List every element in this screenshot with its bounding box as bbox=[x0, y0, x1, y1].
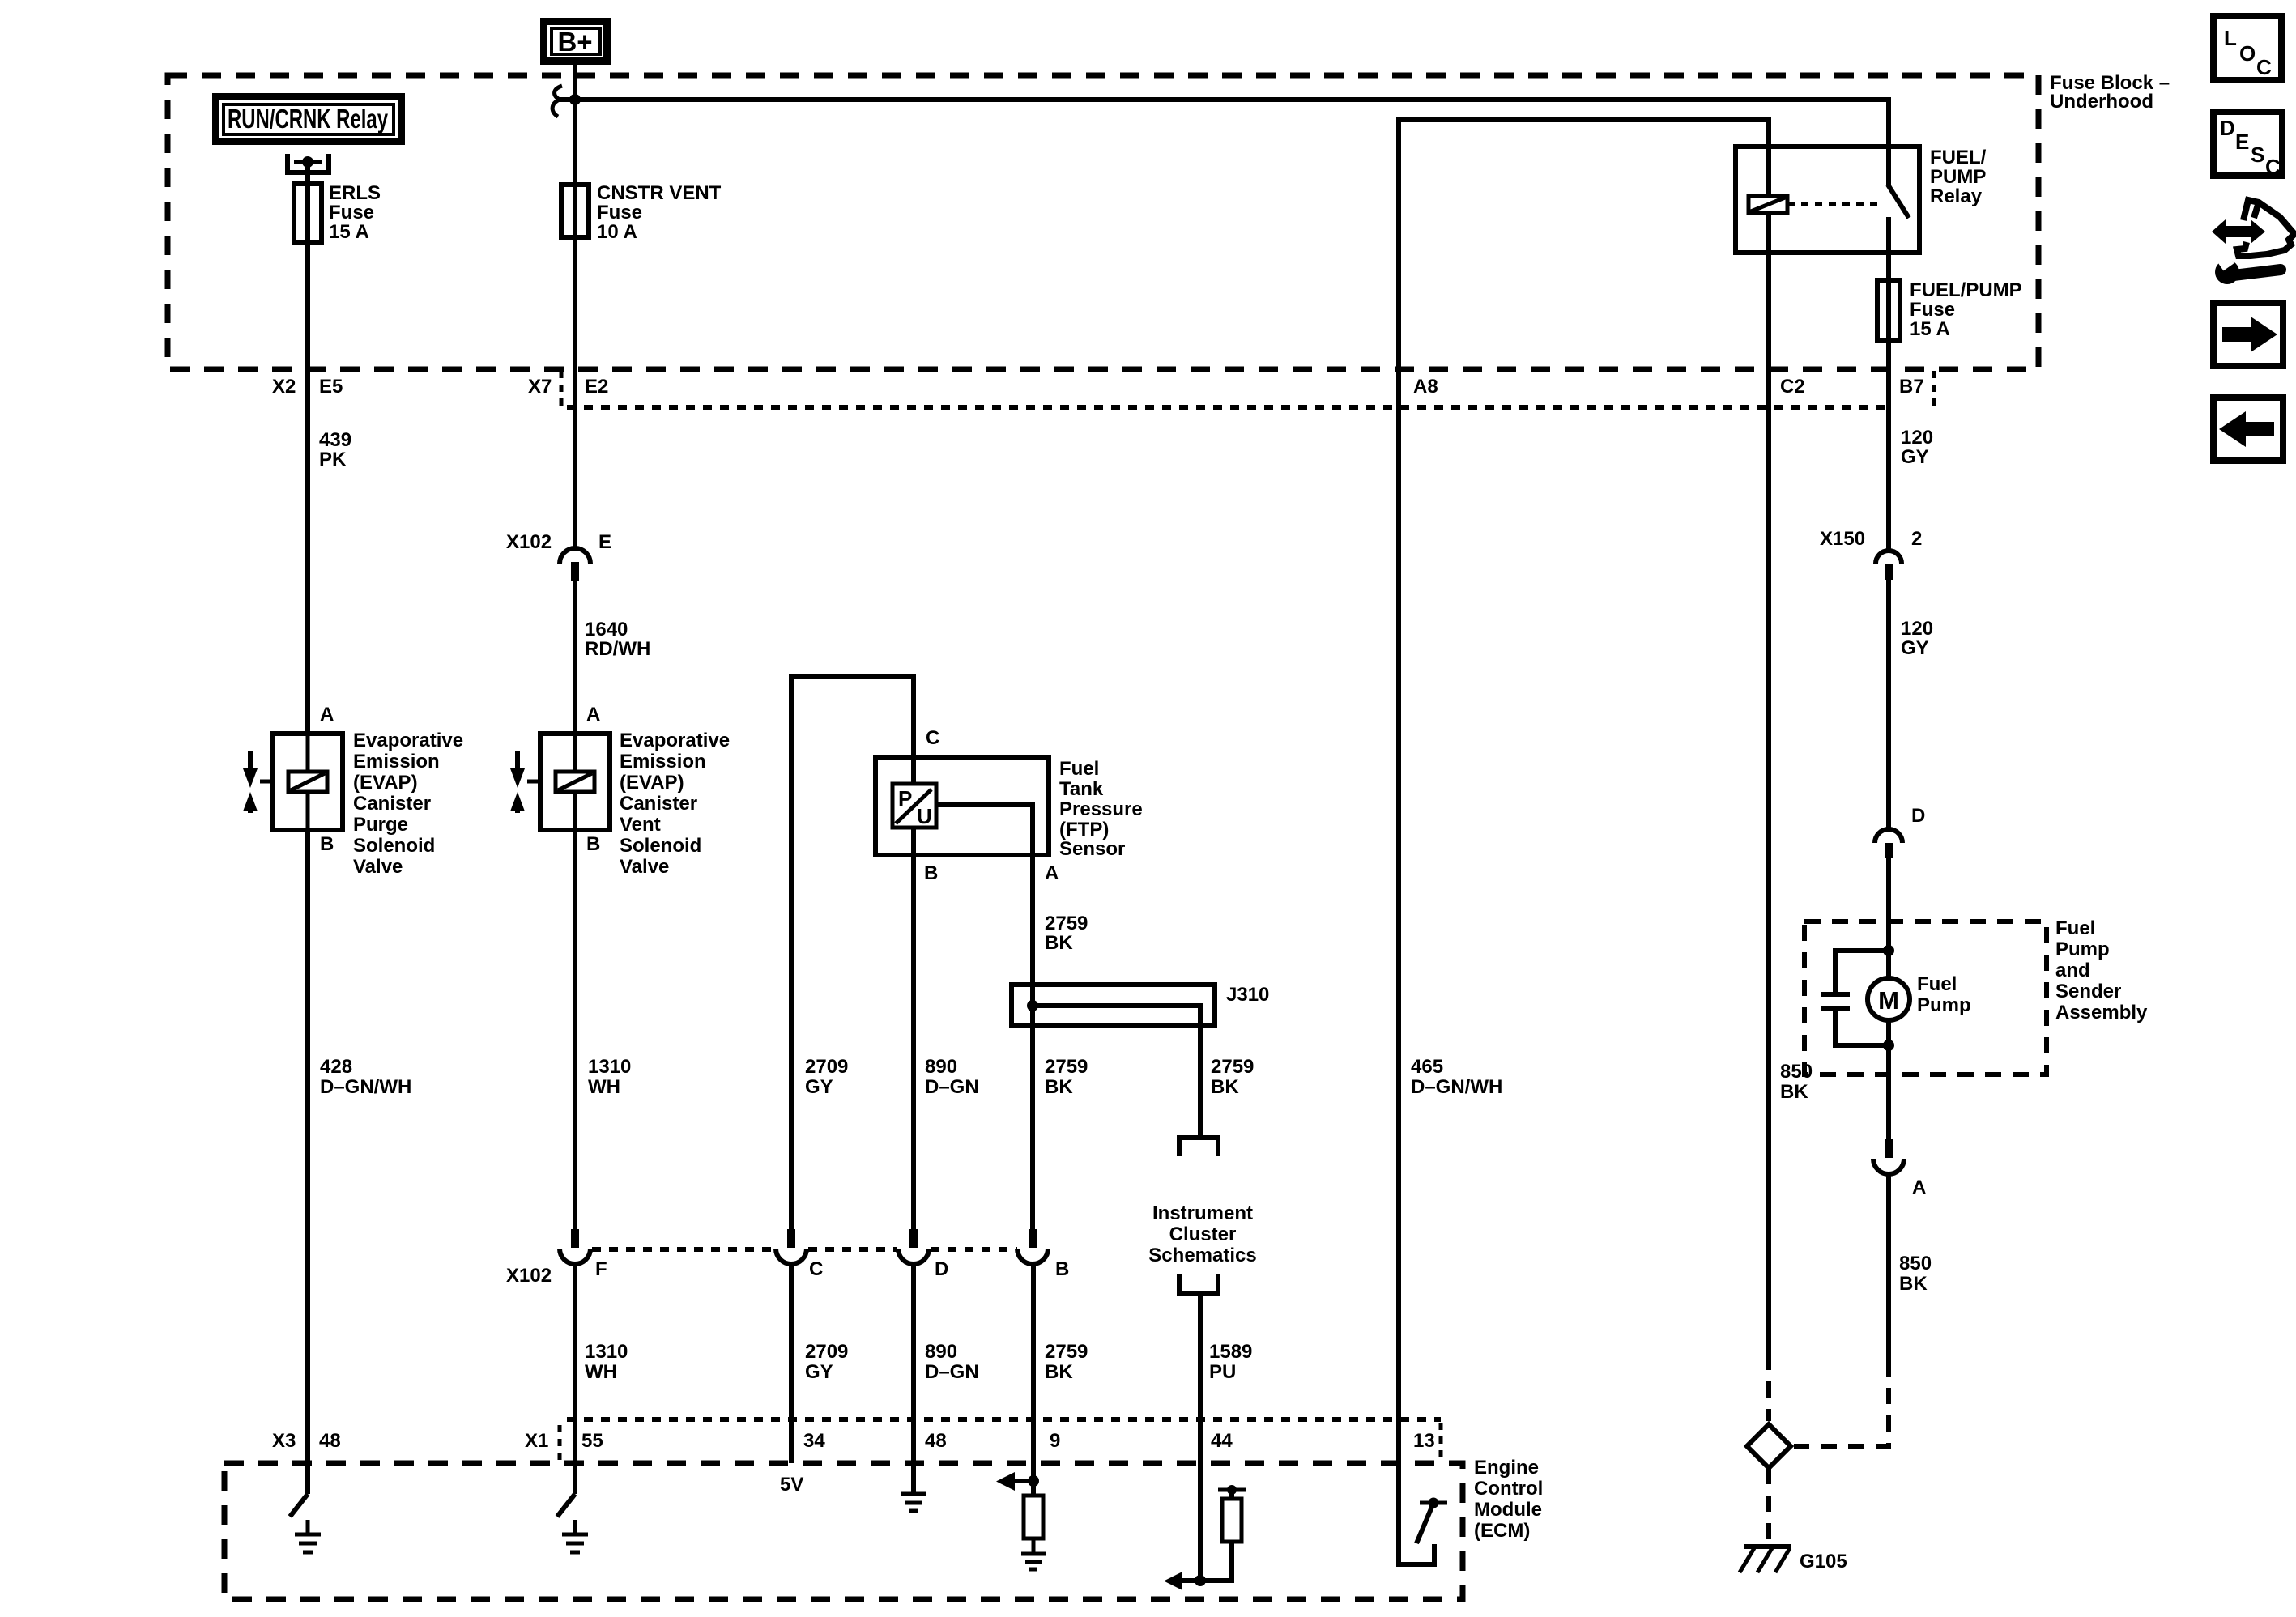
svg-text:Fuse: Fuse bbox=[329, 202, 374, 223]
wire vent solenoid B to X102 F bbox=[573, 830, 577, 1229]
svg-text:D–GN/WH: D–GN/WH bbox=[320, 1076, 411, 1098]
svg-text:Emission: Emission bbox=[620, 751, 706, 772]
fuse ERLS 15 A bbox=[294, 182, 381, 243]
off-page bracket to instrument cluster (top) bbox=[1179, 1138, 1218, 1156]
svg-text:Schematics: Schematics bbox=[1148, 1245, 1256, 1266]
svg-text:Evaporative: Evaporative bbox=[353, 730, 463, 751]
wire A8 feed bus to relay coil bbox=[1399, 120, 1769, 1463]
svg-text:D–GN: D–GN bbox=[925, 1076, 979, 1098]
svg-text:D: D bbox=[1911, 805, 1925, 827]
wire ERLS fuse to X2-E5 bbox=[305, 242, 310, 734]
svg-text:5V: 5V bbox=[780, 1474, 803, 1496]
svg-text:A8: A8 bbox=[1413, 376, 1438, 398]
svg-text:C: C bbox=[2265, 155, 2281, 179]
wire ERLS feed bbox=[305, 163, 310, 184]
ECM internal driver switch at pin 13 bbox=[1399, 1463, 1447, 1564]
svg-text:A: A bbox=[320, 704, 334, 726]
svg-text:Fuel: Fuel bbox=[1059, 758, 1099, 780]
node B+ bus junction bbox=[569, 94, 581, 105]
wire 2759 BK label (FTP A) bbox=[1045, 913, 1088, 954]
svg-text:Emission: Emission bbox=[353, 751, 440, 772]
motor M fuel pump bbox=[1868, 973, 1971, 1020]
connector row fuse block: X2 E5 X7 E2 A8 C2 B7 bbox=[272, 371, 1934, 407]
svg-text:Relay: Relay bbox=[1930, 185, 1983, 207]
wire 2759 BK from FTP A bbox=[936, 805, 1033, 1229]
ECM internal switch to ground at pin 48 X3 bbox=[290, 1494, 321, 1552]
svg-text:Pump: Pump bbox=[1917, 994, 1971, 1016]
svg-text:BK: BK bbox=[1899, 1273, 1928, 1295]
svg-text:465: 465 bbox=[1411, 1056, 1443, 1078]
ECM internal signal arrow and resistor at pin 9 bbox=[996, 1472, 1046, 1569]
svg-text:X3: X3 bbox=[272, 1430, 296, 1452]
icon DESC button bbox=[2213, 112, 2282, 179]
wire 1310 WH lower bbox=[575, 1264, 628, 1494]
svg-text:Fuel: Fuel bbox=[2055, 917, 2095, 939]
ECM internal switch to ground at pin 55 bbox=[557, 1494, 588, 1552]
svg-text:U: U bbox=[917, 804, 932, 828]
svg-text:Pressure: Pressure bbox=[1059, 798, 1143, 820]
ECM internal pull-up resistor and arrow at pin 44 bbox=[1164, 1485, 1246, 1590]
svg-text:2709: 2709 bbox=[805, 1341, 848, 1363]
svg-text:E: E bbox=[598, 531, 611, 553]
svg-text:FUEL/PUMP: FUEL/PUMP bbox=[1910, 279, 2022, 301]
wire B+ bus to fuel pump relay switch bbox=[575, 100, 1889, 147]
svg-text:2: 2 bbox=[1911, 528, 1922, 550]
svg-text:G105: G105 bbox=[1800, 1551, 1847, 1572]
svg-text:M: M bbox=[1878, 986, 1899, 1015]
wire 2709 GY lower bbox=[791, 1264, 848, 1463]
svg-text:1589: 1589 bbox=[1209, 1341, 1252, 1363]
svg-text:Valve: Valve bbox=[620, 856, 669, 878]
svg-text:B: B bbox=[924, 862, 938, 884]
wire dashed C2 to splice bbox=[1766, 1354, 1771, 1421]
svg-text:Instrument: Instrument bbox=[1152, 1202, 1253, 1224]
splice diamond bbox=[1747, 1424, 1791, 1468]
svg-text:Tank: Tank bbox=[1059, 778, 1104, 800]
fuel pump and sender assembly dashed box bbox=[1804, 917, 2148, 1074]
icon LOC button bbox=[2213, 16, 2281, 80]
svg-text:PUMP: PUMP bbox=[1930, 166, 1986, 188]
svg-text:Fuse: Fuse bbox=[1910, 299, 1955, 321]
wire CNSTR VENT fuse to X102 E bbox=[573, 237, 577, 549]
wire 890 D-GN lower bbox=[914, 1264, 979, 1492]
svg-text:44: 44 bbox=[1211, 1430, 1233, 1452]
ECM internal ground at pin 48 bbox=[901, 1494, 926, 1511]
svg-text:D: D bbox=[2220, 116, 2235, 140]
svg-text:1310: 1310 bbox=[588, 1056, 631, 1078]
svg-text:(EVAP): (EVAP) bbox=[353, 772, 418, 794]
svg-text:PK: PK bbox=[319, 449, 347, 470]
svg-text:Canister: Canister bbox=[620, 793, 697, 815]
ground G105 chassis bbox=[1740, 1547, 1847, 1572]
B+ power node bbox=[544, 22, 607, 62]
svg-text:Underhood: Underhood bbox=[2050, 91, 2153, 113]
svg-text:Valve: Valve bbox=[353, 856, 403, 878]
wire 2759 BK label left bbox=[1045, 1056, 1088, 1098]
wire 850 BK label in pump box bbox=[1780, 1061, 1813, 1103]
wire dashed 850 BK to splice bbox=[1794, 1360, 1889, 1446]
connector X102 B bbox=[1017, 1229, 1048, 1264]
icon diagnostic vehicle with wrench bbox=[2212, 200, 2294, 284]
RUN/CRNK relay contact socket bbox=[288, 154, 329, 172]
svg-text:GY: GY bbox=[1901, 637, 1929, 659]
fuse block underhood dashed box bbox=[168, 72, 2170, 369]
relay coil-switch dashed link bbox=[1787, 202, 1879, 206]
svg-text:Sensor: Sensor bbox=[1059, 838, 1125, 860]
wire 120 GY lower label bbox=[1889, 580, 1933, 829]
svg-text:B: B bbox=[586, 833, 600, 855]
svg-text:(EVAP): (EVAP) bbox=[620, 772, 684, 794]
svg-text:9: 9 bbox=[1050, 1430, 1060, 1452]
svg-text:D–GN: D–GN bbox=[925, 1361, 979, 1383]
connector X102 C bbox=[776, 1229, 807, 1264]
svg-text:1640: 1640 bbox=[585, 619, 628, 640]
svg-text:13: 13 bbox=[1413, 1430, 1435, 1452]
connector X150 pin 2 bbox=[1820, 528, 1922, 580]
wire relay coil to C2 bbox=[1766, 213, 1771, 1354]
wire break squiggle at B+ bus left end bbox=[552, 86, 575, 117]
ECM connector row X3 bbox=[272, 1430, 341, 1452]
svg-text:WH: WH bbox=[585, 1361, 617, 1383]
svg-text:2759: 2759 bbox=[1045, 1056, 1088, 1078]
wire 465 D-GN/WH bbox=[1411, 1056, 1502, 1098]
wire 1589 PU bbox=[1200, 1295, 1252, 1581]
svg-text:(FTP): (FTP) bbox=[1059, 819, 1109, 840]
svg-text:Pump: Pump bbox=[2055, 938, 2110, 960]
svg-text:Sender: Sender bbox=[2055, 981, 2121, 1002]
svg-text:C: C bbox=[2256, 55, 2272, 79]
svg-text:10 A: 10 A bbox=[597, 221, 637, 243]
svg-text:15 A: 15 A bbox=[1910, 318, 1950, 340]
svg-text:WH: WH bbox=[588, 1076, 620, 1098]
fuse CNSTR VENT 10 A bbox=[561, 182, 722, 243]
svg-text:FUEL/: FUEL/ bbox=[1930, 147, 1987, 168]
svg-text:850: 850 bbox=[1780, 1061, 1813, 1083]
svg-text:X150: X150 bbox=[1820, 528, 1865, 550]
relay coil FUEL/PUMP bbox=[1749, 196, 1787, 213]
svg-text:X102: X102 bbox=[506, 1265, 552, 1287]
svg-text:850: 850 bbox=[1899, 1253, 1932, 1274]
svg-text:BK: BK bbox=[1780, 1081, 1808, 1103]
svg-text:2759: 2759 bbox=[1045, 1341, 1088, 1363]
svg-text:GY: GY bbox=[1901, 446, 1929, 468]
svg-text:Control: Control bbox=[1474, 1478, 1543, 1500]
svg-text:GY: GY bbox=[805, 1361, 833, 1383]
wire 2759 BK label right of J310 bbox=[1211, 1056, 1254, 1098]
wire 428 D-GN/WH bbox=[308, 830, 411, 1494]
splice J310 bbox=[1012, 984, 1269, 1138]
wire B+ drop to CNSTR VENT fuse bbox=[573, 100, 577, 185]
ECM connector row X1 bbox=[525, 1419, 1441, 1460]
svg-text:E2: E2 bbox=[585, 376, 608, 398]
svg-text:C2: C2 bbox=[1780, 376, 1805, 398]
sensor FTP P/U element bbox=[892, 784, 936, 828]
svg-text:J310: J310 bbox=[1226, 984, 1269, 1006]
wire into pump assembly bbox=[1886, 858, 1891, 978]
svg-text:X2: X2 bbox=[272, 376, 296, 398]
fuse FUEL/PUMP 15 A bbox=[1877, 279, 2022, 340]
svg-text:E: E bbox=[2235, 130, 2249, 154]
svg-text:CNSTR VENT: CNSTR VENT bbox=[597, 182, 722, 204]
svg-text:Cluster: Cluster bbox=[1169, 1223, 1237, 1245]
svg-text:120: 120 bbox=[1901, 618, 1933, 640]
off-page bracket from instrument cluster (bottom) bbox=[1179, 1274, 1218, 1293]
svg-text:D–GN/WH: D–GN/WH bbox=[1411, 1076, 1502, 1098]
svg-text:and: and bbox=[2055, 960, 2090, 981]
svg-text:Vent: Vent bbox=[620, 814, 661, 836]
icon back arrow button bbox=[2213, 398, 2283, 461]
connector X102 D bbox=[898, 1229, 929, 1264]
svg-text:34: 34 bbox=[803, 1430, 825, 1452]
svg-text:2759: 2759 bbox=[1211, 1056, 1254, 1078]
svg-text:ERLS: ERLS bbox=[329, 182, 381, 204]
wire 2709 GY hook from FTP C bbox=[791, 677, 914, 1229]
wire 890 D-GN label bbox=[925, 1056, 979, 1098]
svg-text:C: C bbox=[809, 1258, 823, 1280]
svg-text:890: 890 bbox=[925, 1056, 957, 1078]
wire 850 BK lower label bbox=[1889, 1176, 1932, 1360]
svg-text:B+: B+ bbox=[557, 27, 592, 57]
svg-text:2759: 2759 bbox=[1045, 913, 1088, 934]
svg-text:S: S bbox=[2251, 143, 2264, 167]
svg-text:439: 439 bbox=[319, 429, 351, 451]
svg-text:15 A: 15 A bbox=[329, 221, 369, 243]
svg-text:F: F bbox=[595, 1258, 607, 1280]
svg-text:Engine: Engine bbox=[1474, 1457, 1539, 1479]
svg-text:(ECM): (ECM) bbox=[1474, 1520, 1530, 1542]
svg-text:C: C bbox=[926, 727, 939, 749]
pin D fuel pump connector bbox=[1875, 805, 1925, 858]
svg-text:B7: B7 bbox=[1899, 376, 1924, 398]
node instrument cluster schematics reference bbox=[1148, 1202, 1256, 1266]
relay switch blade bbox=[1888, 147, 1909, 280]
svg-text:X102: X102 bbox=[506, 531, 552, 553]
svg-text:RUN/CRNK Relay: RUN/CRNK Relay bbox=[228, 104, 388, 134]
relay U2 FUEL/PUMP box bbox=[1736, 147, 1987, 253]
svg-text:428: 428 bbox=[320, 1056, 352, 1078]
capacitor across fuel pump bbox=[1821, 945, 1894, 1051]
connector row X102 F C D B bbox=[506, 1249, 1069, 1287]
wire 2709 GY label bbox=[805, 1056, 848, 1098]
svg-text:D: D bbox=[935, 1258, 948, 1280]
svg-text:A: A bbox=[1045, 862, 1059, 884]
svg-text:Purge: Purge bbox=[353, 814, 408, 836]
module ECM dashed box bbox=[224, 1457, 1543, 1599]
svg-text:Fuse: Fuse bbox=[597, 202, 642, 223]
wire 120 GY label upper bbox=[1901, 427, 1933, 468]
wire motor to A connector bbox=[1886, 1020, 1891, 1139]
svg-text:1310: 1310 bbox=[585, 1341, 628, 1363]
wire 2759 BK lower bbox=[1033, 1264, 1088, 1496]
connector X102 E bbox=[506, 531, 611, 581]
svg-text:X1: X1 bbox=[525, 1430, 548, 1452]
svg-text:B: B bbox=[1055, 1258, 1069, 1280]
svg-text:X7: X7 bbox=[528, 376, 552, 398]
wire dashed splice to G105 bbox=[1766, 1468, 1771, 1543]
wire 1310 WH label upper bbox=[588, 1056, 631, 1098]
svg-text:48: 48 bbox=[319, 1430, 341, 1452]
svg-text:55: 55 bbox=[581, 1430, 603, 1452]
wire 439 PK label bbox=[319, 429, 351, 470]
sensor FTP fuel tank pressure bbox=[875, 758, 1143, 860]
wire B+ vertical drop bbox=[573, 62, 577, 100]
svg-text:RD/WH: RD/WH bbox=[585, 638, 650, 660]
svg-text:A: A bbox=[1912, 1177, 1926, 1198]
wire FUEL/PUMP fuse to X150 bbox=[1886, 340, 1891, 550]
wire 890 D-GN from FTP B bbox=[911, 828, 916, 1229]
svg-text:Solenoid: Solenoid bbox=[353, 835, 435, 857]
connector A fuel pump bbox=[1873, 1139, 1926, 1198]
svg-text:2709: 2709 bbox=[805, 1056, 848, 1078]
svg-text:A: A bbox=[586, 704, 600, 726]
svg-text:O: O bbox=[2239, 41, 2256, 66]
svg-text:B: B bbox=[320, 833, 334, 855]
svg-text:E5: E5 bbox=[319, 376, 343, 398]
solenoid vent EVAP bbox=[510, 704, 730, 878]
connector X102 F bbox=[560, 1229, 590, 1264]
svg-text:120: 120 bbox=[1901, 427, 1933, 449]
svg-text:Fuel: Fuel bbox=[1917, 973, 1957, 995]
solenoid purge EVAP bbox=[243, 704, 463, 878]
RUN/CRNK Relay label box bbox=[216, 97, 402, 142]
svg-text:BK: BK bbox=[1045, 1076, 1073, 1098]
svg-text:890: 890 bbox=[925, 1341, 957, 1363]
svg-text:Module: Module bbox=[1474, 1499, 1542, 1521]
svg-text:Solenoid: Solenoid bbox=[620, 835, 701, 857]
svg-text:PU: PU bbox=[1209, 1361, 1236, 1383]
svg-text:BK: BK bbox=[1045, 1361, 1073, 1383]
svg-text:Assembly: Assembly bbox=[2055, 1002, 2148, 1023]
icon next arrow button bbox=[2213, 303, 2283, 366]
svg-text:GY: GY bbox=[805, 1076, 833, 1098]
svg-text:48: 48 bbox=[925, 1430, 947, 1452]
svg-text:Evaporative: Evaporative bbox=[620, 730, 730, 751]
svg-text:L: L bbox=[2224, 26, 2237, 50]
svg-text:P: P bbox=[898, 786, 912, 811]
svg-text:BK: BK bbox=[1211, 1076, 1239, 1098]
svg-text:Canister: Canister bbox=[353, 793, 431, 815]
wire 1640 RD/WH bbox=[575, 581, 650, 734]
svg-text:BK: BK bbox=[1045, 932, 1073, 954]
